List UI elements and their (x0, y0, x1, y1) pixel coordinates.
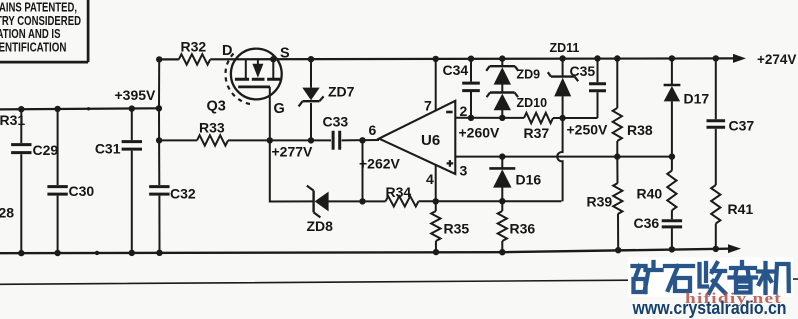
svg-text:ENTIFICATION: ENTIFICATION (0, 39, 67, 54)
transistor Q3 dashed arc (225, 54, 251, 105)
wire lower horizontal line (0, 279, 798, 284)
wire R41 lower lead (715, 224, 717, 249)
svg-text:C37: C37 (729, 118, 755, 134)
wire R35 branch (435, 201, 437, 252)
junction dots top rail (156, 56, 162, 62)
svg-text:+395V: +395V (115, 87, 157, 103)
arrow bottom rail end (728, 244, 741, 253)
resistor R41 (711, 185, 720, 224)
svg-text:3: 3 (460, 163, 468, 179)
resistor R40 (667, 171, 676, 211)
svg-text:+250V: +250V (567, 122, 609, 138)
svg-text:C35: C35 (570, 63, 596, 79)
svg-text:D: D (222, 43, 232, 59)
diode D17 (671, 58, 673, 156)
svg-text:C30: C30 (69, 183, 95, 199)
watermark char ji (machine) (758, 263, 789, 293)
wire C29 branch (20, 109, 22, 253)
junction dots pin2 line (468, 115, 474, 121)
junction pin6 node (359, 137, 365, 143)
capacitor C33 (333, 131, 340, 150)
svg-text:C34: C34 (443, 62, 469, 78)
svg-text:4: 4 (426, 171, 434, 187)
svg-text:7: 7 (424, 98, 432, 114)
zener ZD7 (310, 59, 312, 140)
zener ZD9 (501, 59, 503, 93)
zener ZD8 (312, 191, 314, 213)
transistor Q3 source drop (272, 59, 274, 78)
wire pin3 line (455, 156, 672, 158)
junction small dot on bottom rail (95, 251, 99, 255)
svg-text:6: 6 (369, 122, 377, 138)
svg-text:Q3: Q3 (207, 99, 226, 115)
svg-text:D16: D16 (516, 172, 542, 188)
wire Q3 gate to +277V line (269, 87, 271, 140)
svg-text:2: 2 (460, 103, 468, 119)
wire C30 branch (57, 109, 59, 253)
svg-text:R38: R38 (627, 122, 653, 138)
wire bottom rail (0, 249, 728, 254)
wire main left vertical (top rail to bottom) (158, 59, 161, 252)
wire C31 branch (131, 109, 133, 253)
svg-text:C33: C33 (323, 114, 349, 130)
resistor R37 (524, 113, 553, 123)
svg-text:C32: C32 (170, 186, 196, 202)
wire +395V rail (0, 108, 159, 109)
watermark char shou (receive) (700, 263, 726, 293)
capacitor C34 (470, 59, 472, 118)
capacitor C31 (122, 140, 142, 143)
svg-text:R34: R34 (386, 184, 412, 200)
svg-text:ZD8: ZD8 (307, 218, 334, 234)
svg-text:R40: R40 (637, 186, 663, 202)
arrow +274V rail end (733, 54, 746, 63)
svg-text:28: 28 (0, 205, 14, 221)
wire R38 branch (616, 59, 618, 157)
svg-text:R35: R35 (444, 221, 470, 237)
junction small dot on +395V rail (87, 107, 90, 110)
junction dots +395V rail (18, 106, 24, 112)
svg-text:ZD11: ZD11 (550, 41, 580, 55)
svg-text:ZD7: ZD7 (328, 84, 355, 100)
capacitor C37 (715, 58, 717, 185)
svg-text:R39: R39 (587, 194, 613, 210)
diode D16 (501, 157, 503, 202)
op-amp U6 (379, 101, 455, 174)
svg-text:+274V: +274V (757, 52, 796, 67)
watermark white backing (628, 258, 793, 297)
svg-text:R41: R41 (728, 201, 754, 217)
svg-text:U6: U6 (421, 132, 440, 149)
svg-text:www.crystalradio.cn: www.crystalradio.cn (632, 297, 787, 318)
svg-text:C31: C31 (95, 141, 121, 157)
wire +250V drop with hop over pin3 line (557, 118, 562, 201)
resistor R34 (386, 196, 419, 206)
op-amp U6 minus input sign (446, 111, 452, 114)
watermark char kuang (mine) (633, 262, 662, 292)
wire U6 pin7 to top rail (435, 59, 437, 111)
transistor Q3 gate bar (238, 86, 270, 89)
svg-text:D17: D17 (684, 91, 710, 107)
wire +277V line (R33/C33 to U6) (159, 139, 379, 141)
capacitor C32 (149, 185, 169, 188)
resistor R36 (498, 211, 507, 241)
svg-text:R33: R33 (199, 120, 225, 136)
wire R36 branch (501, 201, 503, 252)
svg-text:ZD10: ZD10 (517, 96, 548, 110)
wire +262V feedback drop (362, 140, 364, 201)
svg-text:S: S (280, 46, 290, 62)
capacitor C36 (662, 219, 682, 222)
svg-text:R37: R37 (524, 125, 550, 141)
wire U6 pin4 drop (435, 165, 437, 201)
resistor R39 (613, 183, 622, 214)
svg-text:C29: C29 (33, 142, 59, 158)
junction dots ZD8 line (359, 198, 365, 204)
wire pin2/+260V/+250V line (455, 117, 597, 119)
svg-text:R36: R36 (510, 221, 536, 237)
transistor Q3 channel bar (235, 78, 280, 81)
resistor R32 (179, 54, 210, 64)
capacitor C29 (11, 143, 31, 146)
svg-text:ZD9: ZD9 (517, 68, 541, 82)
junction dots bottom rail (18, 250, 24, 256)
svg-text:+277V: +277V (272, 144, 314, 160)
zener ZD11 (562, 59, 564, 119)
svg-text:+262V: +262V (359, 156, 401, 172)
zener ZD10 (501, 110, 503, 118)
watermark char yin (sound) (730, 262, 757, 293)
capacitor C35 (597, 59, 599, 119)
transistor Q3 drain drop (245, 59, 247, 78)
wire R40/C36 branch (671, 157, 673, 250)
svg-text:C36: C36 (634, 215, 660, 231)
resistor R35 (431, 211, 440, 241)
transistor Q3 body arrow (257, 59, 259, 64)
capacitor C30 (47, 185, 67, 188)
transistor Q3 body circle (231, 49, 282, 100)
resistor R38 (613, 108, 622, 141)
junction dots +277V line (156, 137, 162, 143)
wire ZD8/R34/pin4 line (270, 140, 562, 201)
wire top rail (+274V) (159, 58, 733, 59)
watermark char shi (stone) (665, 266, 693, 291)
patent note box border (0, 0, 88, 62)
svg-text:+260V: +260V (459, 125, 501, 141)
junction node S on top rail (270, 56, 276, 62)
wire R39 branch (616, 157, 619, 251)
svg-text:G: G (274, 101, 285, 117)
junction dots pin3 line (499, 153, 505, 159)
svg-text:R32: R32 (181, 39, 207, 55)
op-amp U6 plus input sign (447, 160, 454, 167)
resistor R33 (197, 135, 228, 145)
